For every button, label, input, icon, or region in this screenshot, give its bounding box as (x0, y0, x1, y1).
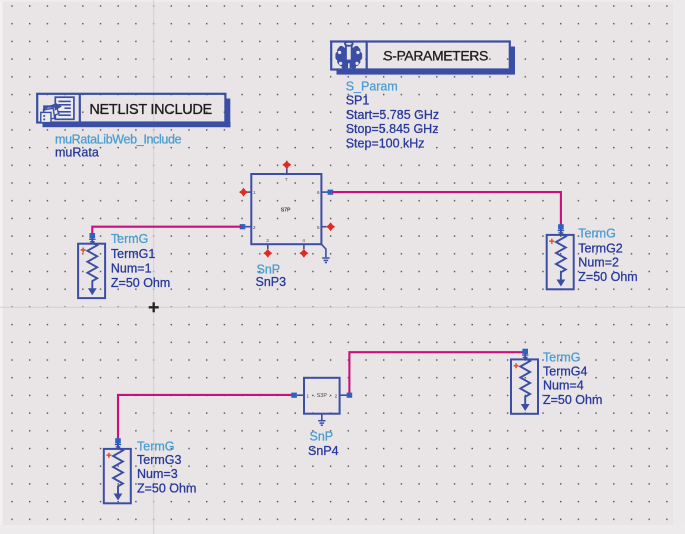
S3P pin 1 stub (297, 394, 304, 396)
wire S3P pin 2 to TermG4 (349, 352, 525, 395)
termination TermG4 (511, 349, 538, 414)
termination TermG2 (547, 224, 574, 289)
svg-text:S_Param: S_Param (346, 79, 398, 93)
wire TermG3 to S3P pin 1 (118, 395, 295, 440)
termination TermG3 (104, 438, 131, 503)
axis vertical line (153, 0, 155, 534)
S7P component U1 body (251, 174, 321, 244)
pin 5 stub (321, 226, 326, 228)
svg-text:Start=5.785 GHz: Start=5.785 GHz (346, 108, 439, 122)
svg-text:S-PARAMETERS: S-PARAMETERS (383, 48, 488, 64)
S-PARAMETERS gear icon (335, 42, 362, 69)
svg-text:TermG: TermG (111, 232, 148, 246)
svg-text:Num=3: Num=3 (137, 467, 178, 481)
svg-text:Step=100 kHz: Step=100 kHz (346, 137, 425, 151)
pin 3 unconnected diamond (263, 249, 272, 258)
S3P pin 2 node square (347, 393, 353, 398)
ground stub at S3P (321, 414, 323, 420)
svg-text:TermG1: TermG1 (111, 247, 155, 261)
svg-text:6: 6 (317, 190, 320, 195)
svg-text:TermG4: TermG4 (543, 364, 588, 378)
ground symbol at S7P (322, 258, 329, 263)
svg-text:2: 2 (335, 393, 338, 398)
pin 4 unconnected diamond (299, 249, 308, 258)
pin 7 unconnected diamond (282, 160, 291, 169)
svg-text:Stop=5.845 GHz: Stop=5.845 GHz (346, 122, 439, 136)
svg-text:5: 5 (317, 225, 320, 230)
wire pin2 to TermG1 (92, 227, 241, 234)
svg-text:Z=50 Ohm: Z=50 Ohm (111, 276, 170, 290)
axis horizontal line (0, 306, 685, 308)
S3P pin 1 node square (291, 393, 297, 398)
svg-text:SnP3: SnP3 (256, 275, 287, 289)
svg-text:4: 4 (302, 238, 305, 243)
svg-text:Num=1: Num=1 (111, 261, 152, 275)
svg-text:TermG3: TermG3 (137, 453, 182, 467)
pin 2 stub (245, 226, 251, 228)
pin 3 stub (267, 244, 269, 249)
svg-text:7: 7 (285, 177, 288, 182)
svg-text:Z=50 Ohm: Z=50 Ohm (543, 393, 602, 407)
wire pin6 to TermG2 (332, 192, 561, 229)
svg-text:SnP: SnP (310, 430, 334, 444)
pin 4 stub (303, 244, 305, 249)
svg-text:muRata: muRata (55, 146, 99, 160)
svg-text:SnP: SnP (257, 262, 281, 276)
svg-text:TermG2: TermG2 (578, 241, 623, 255)
pin 6 stub (321, 191, 328, 193)
svg-text:Z=50 Ohm: Z=50 Ohm (137, 482, 196, 496)
svg-text:SP1: SP1 (346, 94, 370, 108)
pin 1 unconnected diamond (239, 188, 248, 197)
pin 5 unconnected diamond (326, 222, 335, 231)
pin 6 node square (328, 190, 334, 195)
svg-text:. S3P .: . S3P . (314, 393, 331, 399)
svg-text:muRataLibWeb_Include: muRataLibWeb_Include (55, 132, 182, 146)
svg-text:Z=50 Ohm: Z=50 Ohm (578, 270, 637, 284)
S3P pin 2 stub (340, 394, 347, 396)
svg-text:Num=4: Num=4 (543, 379, 584, 393)
S3P component body (304, 378, 340, 414)
svg-text:SnP4: SnP4 (308, 444, 339, 458)
svg-text:2: 2 (253, 225, 256, 230)
svg-text:NETLIST INCLUDE: NETLIST INCLUDE (89, 102, 212, 118)
origin crosshair (149, 302, 159, 312)
S-PARAMETERS block frame (331, 42, 515, 75)
svg-text:1: 1 (253, 190, 256, 195)
ground symbol at S3P (318, 421, 325, 426)
ground wire from S7P corner (321, 244, 326, 257)
svg-text:Num=2: Num=2 (578, 256, 619, 270)
svg-text:S7P: S7P (281, 207, 291, 213)
svg-text:3: 3 (266, 238, 269, 243)
termination TermG1 (78, 233, 105, 298)
svg-text:1: 1 (307, 393, 310, 398)
svg-text:TermG: TermG (137, 439, 175, 453)
pin 7 stub (286, 166, 288, 174)
svg-text:TermG: TermG (543, 351, 581, 365)
NETLIST INCLUDE block frame (37, 94, 230, 127)
pin 1 stub (246, 191, 251, 193)
NETLIST INCLUDE icon (41, 97, 74, 122)
svg-text:TermG: TermG (578, 227, 616, 241)
pin 2 node square (240, 224, 246, 229)
